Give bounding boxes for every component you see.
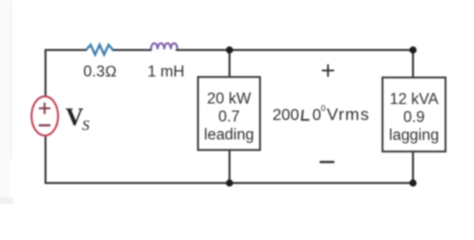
svg-text:V: V bbox=[66, 104, 84, 131]
source minus sign bbox=[40, 124, 50, 126]
resistor R 0.3ohm bbox=[86, 45, 113, 55]
wire left vertical lower bbox=[45, 135, 47, 183]
svg-text:lagging: lagging bbox=[389, 127, 439, 144]
svg-text:20 kW: 20 kW bbox=[207, 91, 251, 108]
label plus polarity bbox=[323, 65, 334, 76]
node junction dot bottom left bbox=[226, 179, 233, 186]
svg-text:0.9: 0.9 bbox=[403, 109, 425, 126]
wire top rail left segment bbox=[46, 49, 87, 51]
wire load2 top lead bbox=[412, 50, 414, 78]
svg-text:leading: leading bbox=[204, 127, 254, 144]
svg-text:0: 0 bbox=[321, 103, 326, 113]
wire bottom rail bbox=[46, 182, 414, 184]
load box 20kW bbox=[198, 77, 260, 150]
wire load1 bottom lead bbox=[229, 150, 231, 183]
svg-text:1 mH: 1 mH bbox=[147, 64, 184, 81]
source plus sign bbox=[40, 103, 50, 113]
wire between resistor and inductor bbox=[113, 49, 151, 51]
node junction dot top right bbox=[409, 46, 416, 53]
wire left vertical upper bbox=[45, 50, 47, 97]
svg-text:0.3Ω: 0.3Ω bbox=[83, 64, 117, 81]
node junction dot top left bbox=[226, 46, 233, 53]
wire top rail right segment bbox=[177, 49, 414, 51]
inductor L 1mH bbox=[151, 43, 177, 49]
svg-text:S: S bbox=[82, 118, 90, 134]
svg-text:12 kVA: 12 kVA bbox=[390, 91, 439, 108]
angle symbol bbox=[302, 110, 310, 120]
source Vs circle bbox=[32, 96, 59, 135]
wire load1 top lead bbox=[229, 50, 231, 77]
svg-text:0.7: 0.7 bbox=[218, 109, 240, 126]
page edge shading bbox=[0, 0, 10, 204]
node junction dot bottom right bbox=[409, 179, 416, 186]
svg-text:Vrms: Vrms bbox=[327, 105, 370, 124]
label minus polarity bbox=[321, 161, 334, 163]
wire load2 bottom lead bbox=[412, 152, 414, 184]
load box 12kVA bbox=[383, 78, 446, 152]
svg-text:200: 200 bbox=[273, 107, 300, 124]
